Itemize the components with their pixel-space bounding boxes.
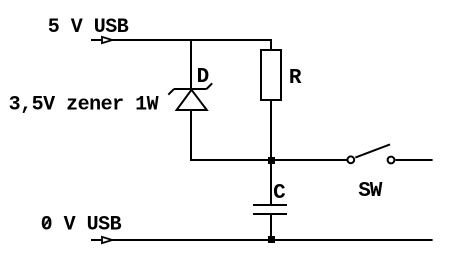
wire switch right xyxy=(396,159,433,161)
switch SW right contact circle xyxy=(388,157,395,164)
svg-text:R: R xyxy=(289,67,302,90)
connector pin 5V tail wire xyxy=(91,39,101,41)
svg-text:3,5V zener 1W: 3,5V zener 1W xyxy=(9,94,159,117)
wire capacitor bottom xyxy=(270,215,272,240)
zener diode D right hook xyxy=(207,83,213,89)
svg-text:SW: SW xyxy=(358,180,383,203)
junction dot mid rail xyxy=(268,157,275,164)
junction dot bottom rail xyxy=(268,236,275,243)
zener diode D left hook xyxy=(168,89,174,95)
wire resistor bottom to junction xyxy=(270,100,272,160)
svg-text:0 V USB: 0 V USB xyxy=(41,214,122,237)
svg-text:D: D xyxy=(197,66,210,89)
wire diode anode to mid rail xyxy=(190,110,192,159)
slash of zero glyph xyxy=(44,218,50,227)
wire mid rail xyxy=(191,159,347,160)
capacitor C bottom plate xyxy=(253,213,287,215)
svg-text:5 V USB: 5 V USB xyxy=(48,16,129,39)
wire top rail from arrow to resistor corner xyxy=(113,40,272,50)
wire bottom rail xyxy=(113,239,433,241)
switch SW lever xyxy=(355,144,390,157)
wire junction to capacitor xyxy=(270,160,272,204)
zener diode D triangle xyxy=(177,90,207,110)
connector pin 0V arrow xyxy=(102,237,112,243)
connector pin 0V tail wire xyxy=(91,239,101,241)
switch SW left contact circle xyxy=(347,156,354,163)
resistor R body xyxy=(261,50,281,100)
zener diode D cathode bar xyxy=(174,88,207,90)
capacitor C top plate xyxy=(253,204,287,206)
svg-text:C: C xyxy=(273,182,286,205)
connector pin 5V arrow xyxy=(102,37,112,43)
wire diode branch from top rail xyxy=(190,39,192,89)
